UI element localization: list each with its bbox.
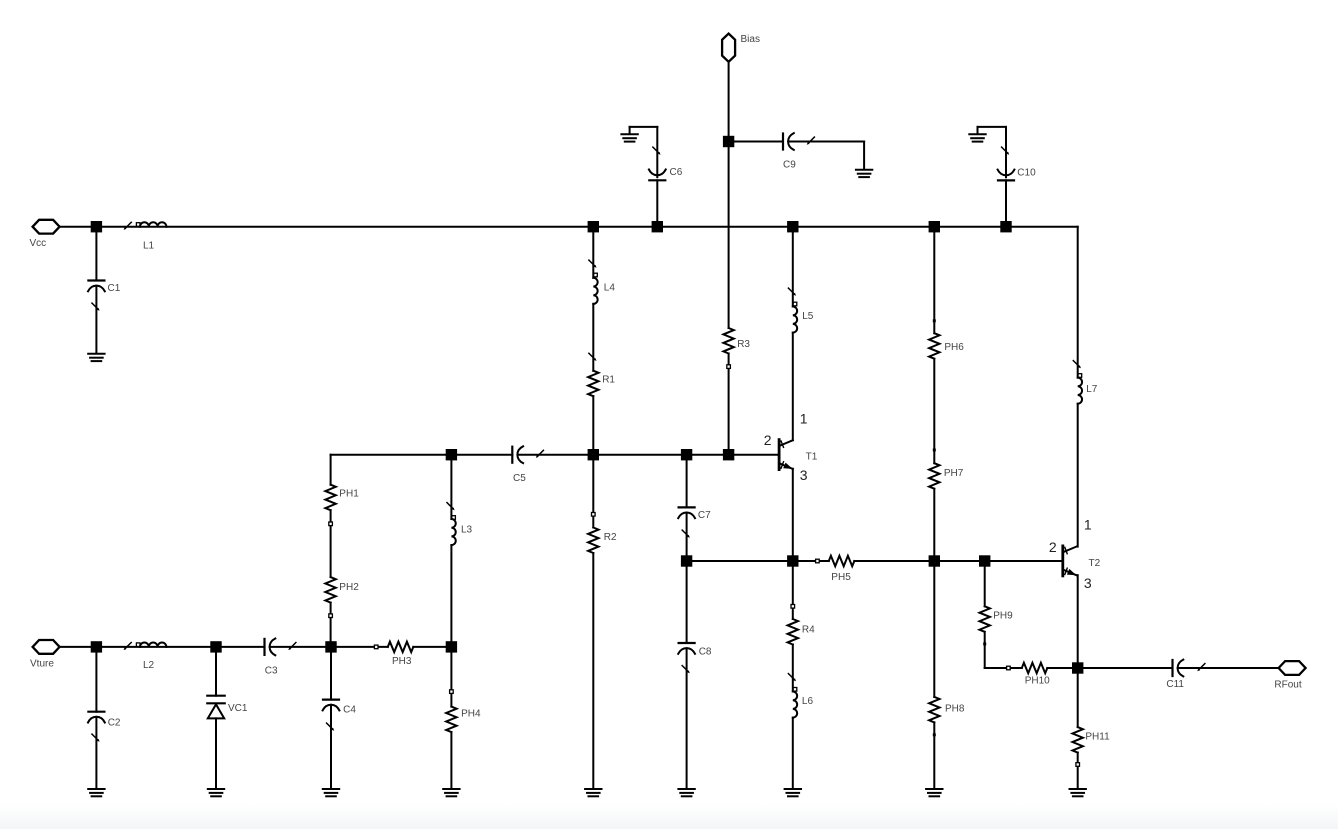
label T1 — [806, 451, 818, 462]
label L3 — [461, 524, 473, 535]
capacitor C3 — [265, 639, 296, 656]
label L7 — [1086, 384, 1098, 395]
ground — [678, 789, 694, 796]
svg-text:1: 1 — [800, 410, 808, 426]
junction L5 node — [787, 221, 798, 232]
wire Vcc bus — [96, 226, 1077, 228]
svg-text:VC1: VC1 — [228, 703, 248, 714]
svg-text:L6: L6 — [802, 696, 814, 707]
svg-text:PH5: PH5 — [831, 572, 851, 583]
wire Bias to R3 — [728, 142, 730, 329]
wire ground stub — [630, 126, 658, 128]
wire PH7 to row3 — [933, 489, 935, 561]
wire to C5 — [451, 454, 512, 456]
label Vcc — [30, 238, 47, 249]
label R1 — [602, 375, 615, 386]
inductor L5 — [788, 288, 797, 333]
wire C9 to corner — [788, 141, 864, 143]
pin marker R4 — [791, 605, 795, 609]
label R2 — [604, 532, 617, 543]
wire T1 emitter down — [792, 469, 794, 561]
pin marker R1 — [589, 353, 597, 361]
wire PH6 to PH7 — [933, 359, 935, 464]
pin label 1 (T2) — [1084, 517, 1092, 533]
resistor PH9 — [980, 606, 990, 632]
port Vture — [33, 640, 60, 654]
wire L6 to ground — [792, 718, 794, 789]
svg-text:C3: C3 — [265, 666, 278, 677]
wire C5 to node — [518, 454, 687, 456]
label PH5 — [831, 572, 851, 583]
resistor PH5 — [829, 556, 855, 566]
wire Vture row a — [96, 646, 216, 648]
resistor PH3 — [388, 642, 414, 652]
wire L4 to R1 — [592, 304, 594, 371]
capacitor C5 — [512, 446, 543, 463]
label R3 — [737, 339, 750, 350]
inductor L4 — [589, 260, 598, 304]
label PH1 — [339, 489, 359, 500]
resistor PH4 — [446, 707, 456, 733]
ground — [926, 789, 942, 796]
wire L3 to Vture row — [450, 545, 452, 647]
junction T2 emitter node — [1072, 662, 1083, 673]
label C9 — [783, 159, 796, 170]
wire to C11 — [1078, 667, 1173, 669]
ground — [621, 127, 637, 142]
ground — [88, 354, 104, 361]
junction C6 node — [652, 221, 663, 232]
resistor R3 — [723, 328, 733, 354]
svg-text:PH2: PH2 — [339, 582, 359, 593]
wire row2 left — [331, 454, 452, 456]
label C5 — [513, 473, 526, 484]
svg-text:PH6: PH6 — [944, 342, 964, 353]
resistor R2 — [588, 528, 598, 554]
label RFout — [1274, 679, 1301, 690]
wire L7 to T2 collector — [1077, 404, 1079, 547]
wire to C3 — [216, 646, 265, 648]
capacitor C11 — [1173, 660, 1205, 677]
pin marker R3 — [727, 365, 731, 369]
label L5 — [802, 311, 814, 322]
label C11 — [1166, 679, 1184, 690]
svg-text:R4: R4 — [802, 624, 815, 635]
wire VC1 to ground — [215, 718, 217, 788]
resistor PH8 — [929, 697, 939, 723]
wire C6 to bus — [656, 180, 658, 226]
svg-text:R1: R1 — [602, 375, 615, 386]
pin marker PH10 — [1007, 666, 1011, 670]
resistor PH1 — [325, 485, 335, 511]
pin label 2 (T2) — [1049, 539, 1057, 555]
svg-text:L7: L7 — [1086, 384, 1098, 395]
resistor R1 — [588, 371, 598, 397]
junction PH9 node — [979, 555, 990, 566]
ground — [856, 170, 872, 177]
port Vcc — [33, 220, 60, 234]
pin marker R2 — [592, 513, 596, 517]
wire ground stub — [978, 126, 1007, 128]
wire to PH3 — [331, 646, 388, 648]
pin marker PH2 — [329, 614, 333, 618]
svg-text:C10: C10 — [1017, 168, 1036, 179]
label L4 — [604, 283, 616, 294]
label L6 — [802, 696, 814, 707]
svg-text:3: 3 — [800, 467, 808, 483]
svg-text:PH4: PH4 — [461, 709, 481, 720]
junction L4 node — [588, 221, 599, 232]
capacitor C10 — [998, 147, 1015, 180]
wire PH5 to node — [854, 560, 934, 562]
resistor R4 — [788, 619, 798, 645]
resistor PH2 — [325, 577, 335, 603]
label PH3 — [392, 656, 412, 667]
junction Vture node — [91, 641, 102, 652]
resistor PH7 — [929, 463, 939, 489]
wire to L3 — [450, 455, 452, 519]
wire to L5 — [792, 227, 794, 307]
svg-text:L1: L1 — [143, 241, 155, 252]
wire — [61, 226, 97, 228]
junction C4 node — [325, 641, 336, 652]
wire to C7 — [686, 455, 688, 508]
svg-text:PH1: PH1 — [339, 489, 359, 500]
wire — [61, 646, 97, 648]
junction T1 base node — [723, 449, 734, 460]
wire to R4 — [792, 561, 794, 619]
svg-text:C7: C7 — [698, 510, 711, 521]
junction T1 emitter node — [787, 555, 798, 566]
svg-text:PH7: PH7 — [944, 468, 964, 479]
svg-text:R3: R3 — [737, 339, 750, 350]
pin marker PH8 — [933, 733, 936, 736]
wire C3 to node — [270, 646, 331, 648]
wire to C4 — [330, 647, 332, 700]
junction PH6 node — [929, 221, 940, 232]
junction C8 node — [681, 555, 692, 566]
label R4 — [802, 624, 815, 635]
svg-text:2: 2 — [764, 432, 772, 448]
ground — [208, 789, 224, 796]
junction C10 node — [1000, 221, 1011, 232]
svg-text:PH11: PH11 — [1085, 731, 1110, 742]
inductor L2 — [124, 642, 167, 650]
label VC1 — [228, 703, 248, 714]
svg-text:1: 1 — [1084, 517, 1092, 533]
wire C8 to ground — [686, 648, 688, 788]
svg-text:Bias: Bias — [741, 34, 760, 45]
inductor L7 — [1073, 361, 1082, 404]
svg-text:T1: T1 — [806, 451, 818, 462]
ground — [88, 789, 104, 796]
pin label 1 (T1) — [800, 410, 808, 426]
wire to L4 — [592, 227, 594, 278]
label C6 — [670, 167, 683, 178]
capacitor C1 — [88, 281, 105, 311]
svg-text:T2: T2 — [1089, 558, 1101, 569]
svg-text:Vcc: Vcc — [30, 238, 47, 249]
junction PH5 node — [929, 555, 940, 566]
wire to PH8 — [933, 561, 935, 697]
capacitor C8 — [678, 643, 695, 673]
wire — [728, 63, 730, 142]
svg-text:C6: C6 — [670, 167, 683, 178]
wire R1 to row — [592, 396, 594, 455]
pin marker PH11 — [1076, 763, 1080, 767]
wire R3 to base node — [728, 354, 730, 455]
junction VC1 node — [210, 641, 221, 652]
pin marker PH1 — [329, 522, 333, 526]
svg-text:C8: C8 — [699, 647, 712, 658]
svg-text:2: 2 — [1049, 539, 1057, 555]
pin label 2 (T1) — [764, 432, 772, 448]
capacitor C2 — [88, 712, 105, 742]
svg-text:L2: L2 — [143, 660, 155, 671]
pin label 3 (T2) — [1084, 575, 1092, 591]
label Bias — [741, 34, 760, 45]
svg-text:C11: C11 — [1166, 679, 1184, 690]
wire PH1 to PH2 — [330, 510, 332, 577]
label C8 — [699, 647, 712, 658]
label T2 — [1089, 558, 1101, 569]
wire to C6 — [656, 127, 658, 177]
ground — [1070, 789, 1086, 796]
svg-text:Vture: Vture — [30, 659, 54, 670]
wire to PH11 — [1077, 668, 1079, 727]
varactor diode VC1 — [207, 696, 224, 719]
wire to PH6 — [933, 227, 935, 334]
label PH9 — [993, 611, 1013, 622]
port Bias — [722, 34, 735, 62]
ground — [785, 789, 801, 796]
label PH8 — [945, 703, 965, 714]
junction PH4 node — [446, 641, 457, 652]
label C1 — [108, 283, 121, 294]
svg-text:C4: C4 — [343, 705, 356, 716]
wire T2 emitter down — [1077, 575, 1079, 668]
wire R2 to ground — [592, 553, 594, 789]
wire to PH9 — [984, 561, 986, 606]
pin marker PH5 — [816, 559, 820, 563]
label C7 — [698, 510, 711, 521]
wire bus corner to L7 — [1077, 227, 1079, 378]
wire PH9 down — [984, 632, 986, 668]
label C4 — [343, 705, 356, 716]
wire row3 mid — [934, 560, 984, 562]
pin marker PH4 — [450, 690, 454, 694]
resistor PH11 — [1073, 727, 1083, 753]
wire C1 to ground — [95, 286, 97, 354]
wire corner to PH1 — [330, 455, 332, 485]
resistor PH10 — [1022, 663, 1048, 673]
wire PH4 to ground — [450, 732, 452, 789]
junction R1 node — [588, 449, 599, 460]
inductor L1 — [124, 222, 167, 230]
capacitor C9 — [783, 133, 814, 150]
svg-text:L4: L4 — [604, 283, 616, 294]
wire row3 left — [687, 560, 793, 562]
wire to R2 — [592, 455, 594, 528]
ground — [323, 789, 339, 796]
wire to VC1 — [215, 647, 217, 696]
label C3 — [265, 666, 278, 677]
resistor PH6 — [929, 333, 939, 359]
label L2 — [143, 660, 155, 671]
label L1 — [143, 241, 155, 252]
inductor L6 — [788, 674, 797, 718]
wire to C1 — [95, 232, 97, 280]
junction C7 node — [681, 449, 692, 460]
wire L5 to T1 collector — [792, 333, 794, 441]
pin marker PH7 — [933, 449, 936, 452]
svg-text:PH10: PH10 — [1025, 675, 1050, 686]
port RFout — [1279, 661, 1306, 675]
label PH10 — [1025, 675, 1050, 686]
wire to PH4 — [450, 647, 452, 707]
inductor L3 — [447, 503, 456, 546]
label PH11 — [1085, 731, 1110, 742]
wire PH2 to Vture row — [330, 603, 332, 647]
svg-text:PH3: PH3 — [392, 656, 412, 667]
junction Bias node — [723, 136, 734, 147]
label PH4 — [461, 709, 481, 720]
wire PH3 to node — [413, 646, 451, 648]
wire down to ground — [863, 142, 865, 170]
junction C5 node — [446, 449, 457, 460]
capacitor C7 — [678, 507, 695, 537]
wire C7 to row3 — [686, 513, 688, 561]
transistor T1 — [779, 440, 793, 470]
svg-text:PH8: PH8 — [945, 703, 965, 714]
svg-text:C5: C5 — [513, 473, 526, 484]
ground — [969, 127, 985, 142]
wire PH11 to ground — [1077, 753, 1079, 789]
ground — [443, 789, 459, 796]
wire C2 to ground — [95, 717, 97, 789]
label PH2 — [339, 582, 359, 593]
svg-text:C2: C2 — [108, 717, 121, 728]
wire to PH5 — [793, 560, 829, 562]
wire to PH10 — [985, 667, 1022, 669]
wire to C10 — [1005, 127, 1007, 177]
wire C11 to RFout — [1178, 667, 1278, 669]
svg-text:L5: L5 — [802, 311, 814, 322]
wire PH8 to ground — [933, 722, 935, 788]
transistor T2 — [1063, 546, 1077, 576]
pin marker PH9 — [983, 642, 986, 645]
label Vture — [30, 659, 54, 670]
pin marker PH6 — [933, 319, 936, 322]
svg-text:3: 3 — [1084, 575, 1092, 591]
wire row3 to T2 base — [985, 560, 1063, 562]
ground — [585, 789, 601, 796]
pin label 3 (T1) — [800, 467, 808, 483]
capacitor C4 — [323, 700, 340, 731]
wire to C9 — [729, 141, 783, 143]
wire to C2 — [95, 647, 97, 712]
capacitor C6 — [649, 147, 666, 180]
svg-text:L3: L3 — [461, 524, 473, 535]
label C2 — [108, 717, 121, 728]
wire to C8 — [686, 561, 688, 643]
wire R4 to L6 — [792, 645, 794, 692]
wire PH10 to node — [1047, 667, 1077, 669]
label PH7 — [944, 468, 964, 479]
pin marker PH3 — [374, 645, 378, 649]
label PH6 — [944, 342, 964, 353]
label C10 — [1017, 168, 1036, 179]
junction Vcc node — [91, 221, 102, 232]
wire row2 right — [687, 454, 780, 456]
svg-text:C1: C1 — [108, 283, 121, 294]
wire C10 to bus — [1005, 180, 1007, 226]
svg-text:C9: C9 — [783, 159, 796, 170]
svg-text:RFout: RFout — [1274, 679, 1301, 690]
wire C4 to ground — [330, 705, 332, 789]
svg-text:PH9: PH9 — [993, 611, 1013, 622]
svg-text:R2: R2 — [604, 532, 617, 543]
